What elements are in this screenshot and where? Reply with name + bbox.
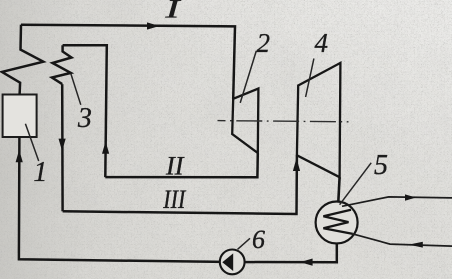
- leader line to label 1: [25, 124, 38, 161]
- svg-text:3: 3: [77, 103, 92, 134]
- svg-text:III: III: [162, 185, 186, 214]
- leader line to label 4: [306, 59, 314, 98]
- wire: line III (hot reheat) and riser to turbine 4: [63, 155, 297, 214]
- pump impeller triangle: [222, 253, 233, 271]
- wire: turbine 4 exhaust down to condenser: [338, 177, 339, 202]
- wire: riser from line II up to reheater bracket: [63, 45, 107, 177]
- pump 6 (circle): [220, 250, 245, 275]
- reheater zigzag coil 3: [52, 45, 72, 84]
- turbine shaft axis (dash-dot centerline): [218, 121, 349, 122]
- wire: condensate line from condenser via pump to boiler: [19, 137, 337, 262]
- leader line to label 2: [240, 51, 256, 103]
- flow arrow up on riser: [102, 141, 109, 153]
- svg-text:2: 2: [257, 28, 271, 58]
- superheater zigzag coil at boiler outlet: [2, 25, 43, 95]
- wire: turbine 2 exhaust down to line II: [105, 153, 257, 177]
- svg-text:4: 4: [315, 28, 329, 58]
- svg-text:1: 1: [33, 157, 47, 188]
- boiler 1 (steam generator box): [3, 95, 37, 138]
- leader line to label 5: [340, 163, 372, 205]
- flow arrow up into turbine 4: [293, 158, 300, 171]
- turbine 2 (HP cylinder): [232, 89, 258, 154]
- leader line to label 3: [71, 74, 81, 105]
- wire: reheater outlet down to line III: [61, 84, 64, 211]
- condenser 5 (circle): [316, 202, 358, 244]
- wire: live steam line I (top): [21, 25, 235, 99]
- svg-text:5: 5: [374, 150, 388, 181]
- flow arrow left on condensate line: [300, 259, 313, 266]
- condenser cooling coil zigzag: [323, 210, 352, 234]
- flow arrow right on water outlet: [405, 194, 416, 200]
- flow arrow down on reheater outlet: [59, 139, 66, 151]
- svg-text:6: 6: [252, 225, 265, 254]
- svg-text:I: I: [164, 0, 182, 23]
- svg-text:II: II: [165, 151, 185, 180]
- flow arrow up into boiler: [16, 150, 23, 162]
- cooling water inlet pipe (bottom right): [353, 234, 452, 246]
- flow arrow left on water inlet: [409, 242, 423, 248]
- leader line to label 6: [238, 238, 250, 249]
- cooling water outlet pipe (top right): [342, 197, 452, 206]
- flow arrow on line I: [147, 22, 160, 29]
- turbine 4 (LP cylinder): [297, 63, 341, 177]
